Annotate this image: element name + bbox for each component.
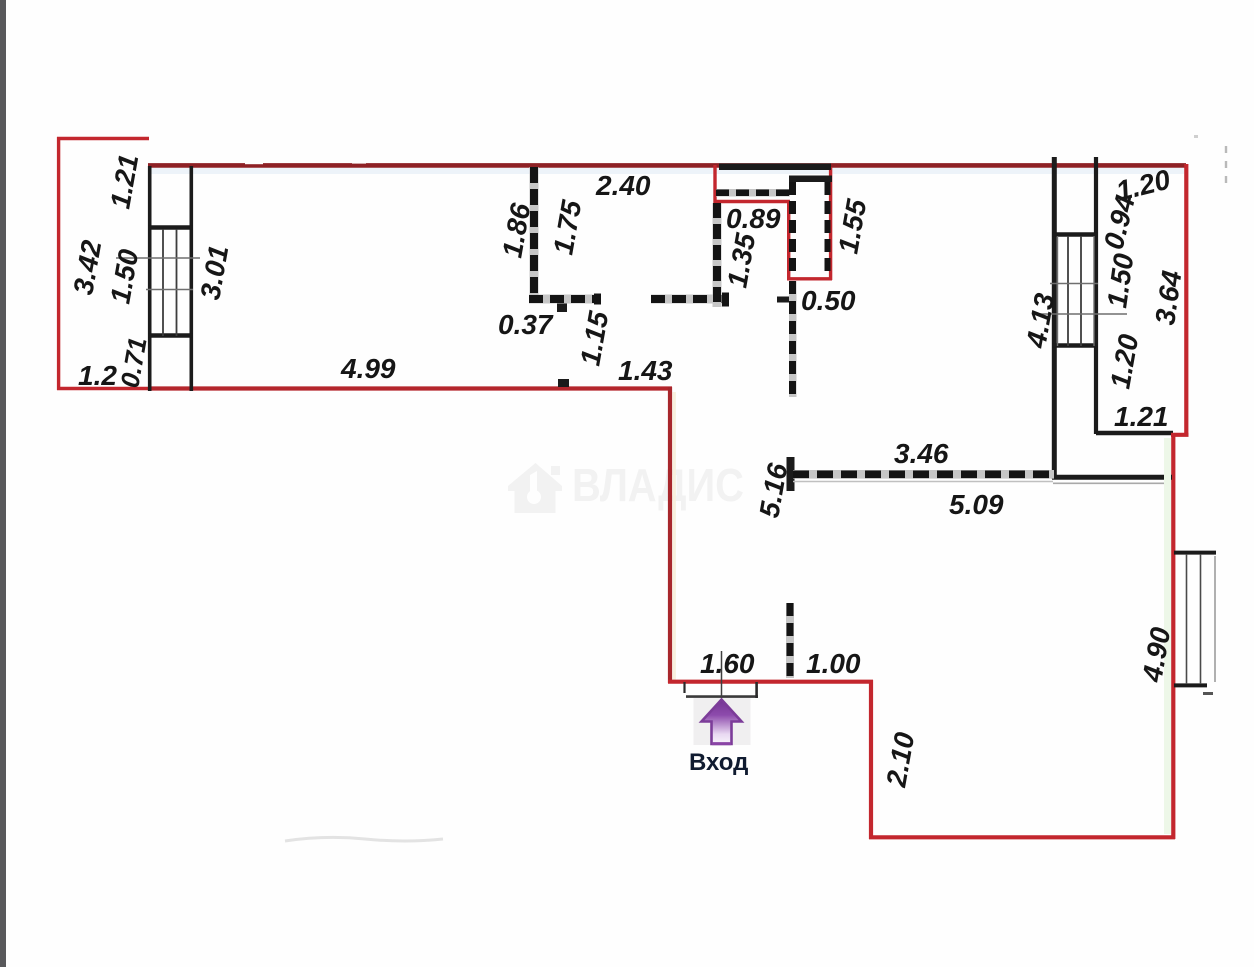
faint dashed line top right [1225,146,1227,190]
wall E dashes [789,281,796,397]
window bottom tick [1174,683,1207,687]
wall J dashes [793,470,1054,478]
svg-text:1.00: 1.00 [806,648,861,679]
red vertical 2.10 [869,680,873,839]
top wall notch artifact [245,161,263,164]
wall 4.99 red [148,386,672,390]
arrow bottom accent [712,742,731,745]
shaft right dashed vertical [825,182,831,273]
top wall notch artifact 2 [352,161,366,164]
svg-text:5.09: 5.09 [949,489,1004,520]
wall H under 1.21 [1096,431,1173,436]
wall B end cap [594,294,601,305]
window outer vertical [1214,556,1216,682]
balcony window right jamb [190,166,194,391]
watermark hole stem [530,471,537,495]
svg-text:0.50: 0.50 [801,285,856,316]
svg-text:Вход: Вход [689,749,748,776]
wall B dashes [529,295,600,303]
right stair inner edges [1058,236,1095,346]
wall K dashes [787,603,794,678]
0.37 tick block [557,302,567,312]
wall D dashes [713,203,721,307]
red shaft bottom [787,277,832,280]
right stair bottom box top bar [1052,343,1098,347]
red bottom wall [869,835,1175,839]
right stair tick upper [1050,283,1098,285]
balcony window top box bottom bar [148,225,193,229]
faint smudge bottom-left [285,837,443,841]
right stair top box bottom bar [1052,232,1098,236]
balcony dim tick 1.50 upper [116,257,200,259]
porch bottom line [686,695,758,698]
right stair tick lower [1032,313,1127,315]
window small mark below [1203,692,1213,695]
red shaft left vertical [787,201,790,280]
svg-text:1.2: 1.2 [78,360,117,391]
right stair risers [1068,236,1081,346]
wall E dashed below shaft [789,281,797,397]
scan edge gray bar [0,0,6,967]
balcony top wall [57,137,149,140]
wall C dashes [651,295,728,303]
faint dot top right [1194,135,1198,138]
svg-text:2.40: 2.40 [595,170,651,201]
long wall F vertical [1052,157,1057,479]
red right wall upper [1184,164,1188,436]
dim leader 1.60 [721,651,723,700]
balcony left wall [57,137,60,390]
cream halo right of vertical [673,392,676,680]
top wall (red over black, maroon) [148,163,1186,168]
wall K stub base (above entrance) [786,603,794,678]
wall D base (vertical 1.35) [713,203,722,307]
porch left tick [683,682,685,693]
svg-text:4.99: 4.99 [340,353,396,384]
red shaft right vertical [829,167,832,280]
window inner verticals [1187,554,1201,684]
wall C end cap [722,293,729,307]
red around shaft: left jog [713,165,716,203]
wall I corridor bottom [1052,475,1172,480]
right stair right jamb [1094,157,1098,434]
wall J underline [793,481,1053,483]
shaft top bar [789,176,832,183]
balcony bottom wall [57,387,150,390]
wall J base (3.46/5.09) [793,470,1054,479]
watermark house icon [508,463,562,513]
red shaft top horizontal [714,200,791,203]
entrance wall red horizontal [668,680,873,684]
5.16 stub [787,457,795,491]
red right wall lower [1171,434,1175,839]
thin gray line under wall I [1053,482,1171,484]
black top bar of 0.89 box [719,164,831,171]
svg-text:0.89: 0.89 [726,203,781,234]
partition 0.89 dashed [716,189,790,197]
balcony stair risers [163,229,177,336]
svg-text:1.60: 1.60 [700,648,755,679]
balcony window left jamb [148,166,152,391]
shaft left dashed vertical [789,182,796,277]
wall A base (vertical 1.86/1.75) [530,167,539,302]
svg-text:ВЛАДИС: ВЛАДИС [572,459,744,511]
balcony dim tick 1.50 lower [146,289,193,291]
svg-text:1.43: 1.43 [618,355,673,386]
svg-text:1.21: 1.21 [1114,401,1169,432]
halo under top wall [150,168,1184,174]
window top tick [1174,551,1216,555]
wall A dashes [530,167,538,302]
svg-text:3.46: 3.46 [894,438,949,469]
red jog at 1.21 [1171,433,1189,437]
watermark hole [527,490,541,504]
pale green tint along right red wall [1164,438,1171,834]
balcony window bottom box top bar [148,333,193,337]
0.50 tick [777,297,795,303]
arrow background square [694,698,751,745]
wall C base (horizontal right of door) [651,295,728,304]
svg-text:0.37: 0.37 [498,309,554,340]
small block above 4.99 wall [558,379,569,387]
wall B base (horizontal 0.37) [529,295,600,304]
porch right jamb [755,682,758,698]
partition 0.89 dashes [716,189,790,196]
wall vertical 1.43->entrance red [668,387,672,683]
